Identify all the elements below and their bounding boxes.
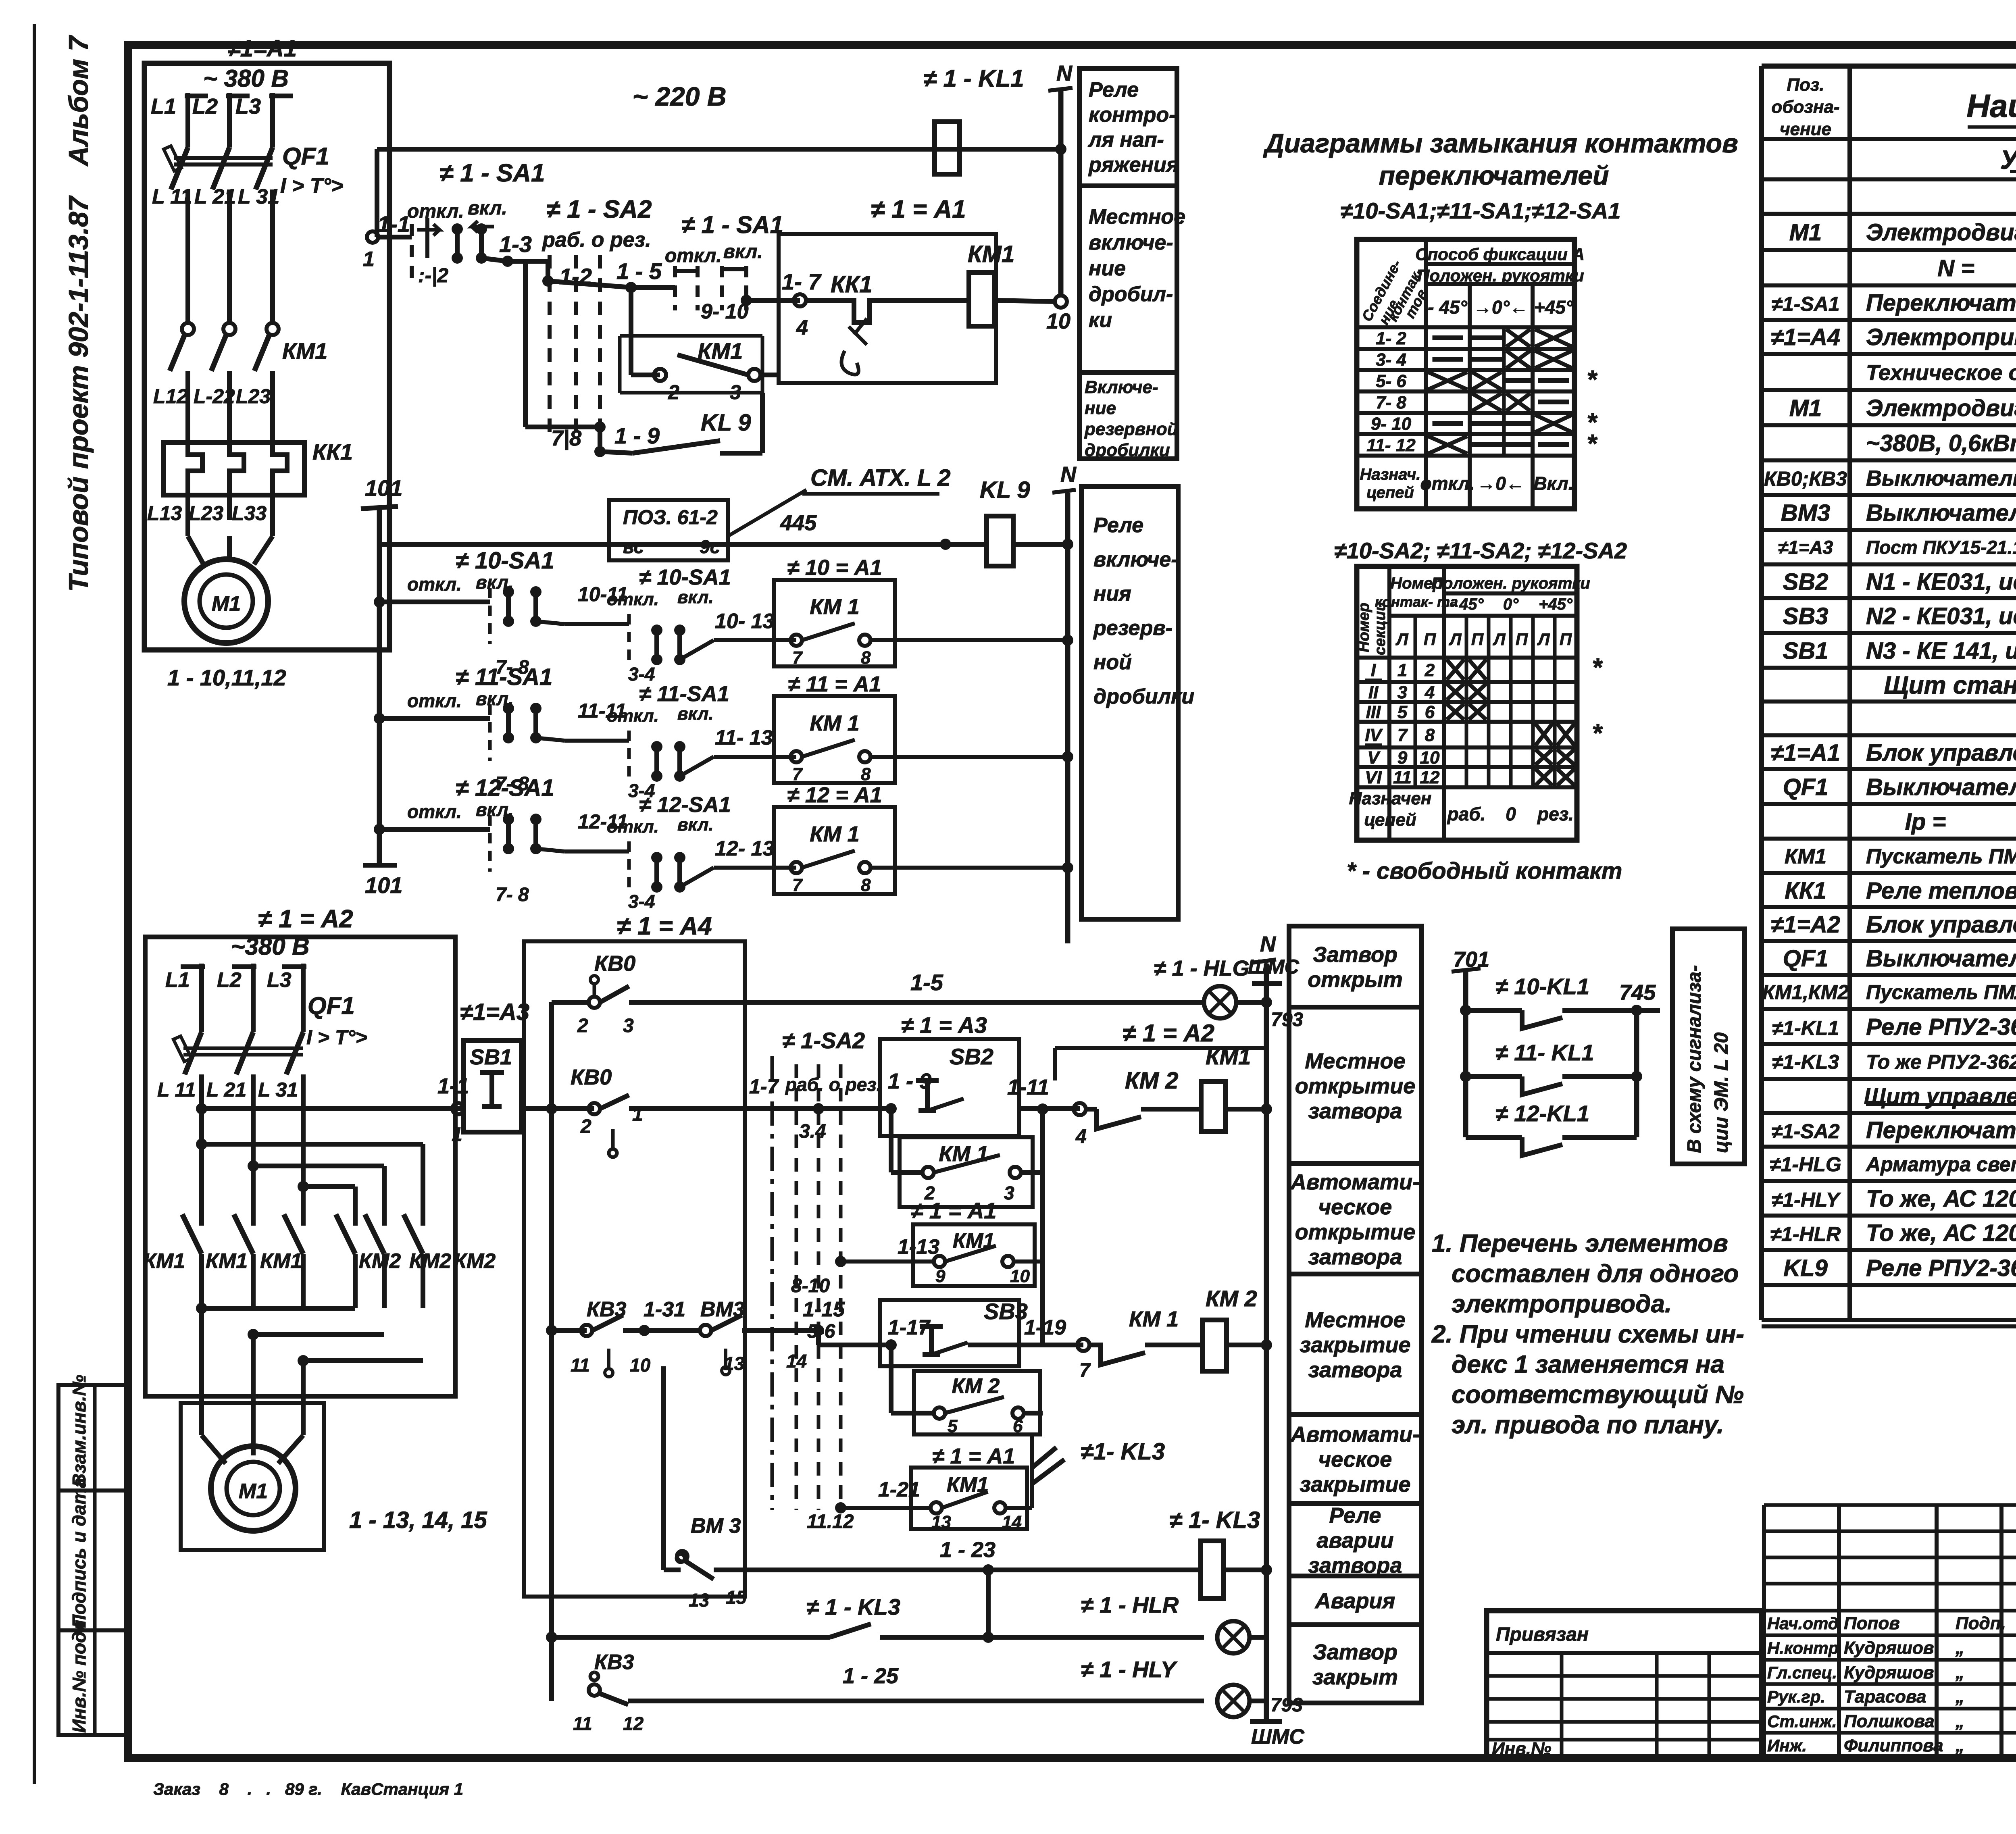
svg-text:1. Перечень элементов: 1. Перечень элементов (1432, 1230, 1728, 1257)
svg-text:*: * (1592, 718, 1603, 747)
svg-text:Электродвигатель: Электродвигатель (1866, 219, 2016, 246)
svg-text:≠ 11- KL1: ≠ 11- KL1 (1495, 1040, 1594, 1065)
svg-text:цепей: цепей (1366, 484, 1414, 502)
svg-text:Авария: Авария (1314, 1589, 1395, 1613)
svg-text:3: 3 (1397, 683, 1407, 702)
svg-text:Л: Л (1395, 630, 1409, 649)
svg-text:Арматура светосигнальная АС120: Арматура светосигнальная АС12013У2 (1865, 1153, 2016, 1176)
svg-text:1-19: 1-19 (1024, 1316, 1066, 1339)
svg-text:обозна-: обозна- (1771, 97, 1839, 117)
svg-text:5: 5 (1397, 702, 1408, 722)
svg-text:Положен. рукоятки: Положен. рукоятки (1417, 266, 1584, 285)
svg-text:включе-: включе- (1089, 231, 1173, 254)
svg-text:Пускатель ПМЛ-150104В, ~220В: Пускатель ПМЛ-150104В, ~220В (1866, 981, 2016, 1003)
svg-text:Тарасова: Тарасова (1844, 1687, 1926, 1707)
svg-text:Реле: Реле (1329, 1503, 1381, 1528)
svg-text:11: 11 (573, 1713, 592, 1734)
svg-text:VI: VI (1365, 768, 1382, 787)
svg-text:≠ 12 = А1: ≠ 12 = А1 (787, 783, 882, 807)
svg-text:101: 101 (365, 475, 402, 501)
svg-text:N2 - КЕ031, исп.4, т „ закрыт: N2 - КЕ031, исп.4, т „ закрыт “ (1866, 603, 2016, 629)
svg-text:Включе-: Включе- (1085, 377, 1158, 397)
svg-text:≠1-KL1: ≠1-KL1 (1772, 1017, 1839, 1039)
svg-text:рез.: рез. (1537, 804, 1574, 824)
svg-text:L 21: L 21 (194, 185, 236, 208)
svg-text:Положен. рукоятки: Положен. рукоятки (1431, 575, 1590, 592)
svg-text:Нач.отд: Нач.отд (1767, 1614, 1839, 1633)
svg-text:1-11: 1-11 (1007, 1075, 1049, 1099)
svg-text:КМ 2: КМ 2 (1125, 1068, 1178, 1094)
svg-text:≠ 10-SA1: ≠ 10-SA1 (456, 547, 554, 574)
svg-text:ВМ3: ВМ3 (1781, 500, 1830, 526)
svg-text:Реле: Реле (1093, 514, 1143, 537)
svg-text:1-13: 1-13 (898, 1235, 939, 1259)
svg-text:≠ 10 = А1: ≠ 10 = А1 (787, 556, 882, 580)
svg-text:КК1: КК1 (1785, 878, 1826, 904)
svg-text:КМ 1: КМ 1 (810, 822, 859, 846)
svg-text:L2: L2 (217, 968, 242, 992)
svg-text:1 - 23: 1 - 23 (940, 1538, 996, 1562)
svg-text:КМ2: КМ2 (454, 1249, 496, 1273)
svg-text:Местное: Местное (1305, 1308, 1405, 1332)
svg-text:10: 10 (630, 1355, 651, 1376)
svg-text:КМ1: КМ1 (1785, 845, 1826, 868)
svg-text:Выключатель конечный: Выключатель конечный (1866, 466, 2016, 490)
svg-text:L3: L3 (235, 94, 261, 119)
svg-text:Кудряшов: Кудряшов (1844, 1638, 1934, 1658)
svg-text:12: 12 (1420, 768, 1440, 787)
svg-text:SB3: SB3 (984, 1299, 1028, 1324)
svg-text:То же, АС 12014 У2: То же, АС 12014 У2 (1866, 1186, 2016, 1212)
svg-text:дробилки: дробилки (1093, 685, 1194, 708)
svg-text:КМ1: КМ1 (206, 1249, 248, 1273)
svg-text:раб.: раб. (1447, 804, 1486, 824)
svg-text:6: 6 (1013, 1416, 1023, 1436)
svg-text:Инж.: Инж. (1767, 1736, 1807, 1755)
svg-text:Способ фиксации А: Способ фиксации А (1415, 245, 1585, 264)
svg-text:Вкл.: Вкл. (1533, 473, 1573, 494)
svg-text:вкл.: вкл. (677, 815, 714, 835)
svg-text:V: V (1367, 748, 1381, 768)
svg-text:Выключатель АЕ2026-10НУ3-Б,Iр:: Выключатель АЕ2026-10НУ3-Б,Iр:10А (1866, 945, 2016, 972)
svg-text:Техническое описание электропр: Техническое описание электропривода (1866, 360, 2016, 385)
svg-text:открытие: открытие (1295, 1074, 1416, 1098)
svg-text:КМ2: КМ2 (359, 1249, 401, 1273)
svg-text:Ст.инж.: Ст.инж. (1767, 1712, 1837, 1731)
svg-text:цепей: цепей (1364, 810, 1416, 830)
svg-text:L23: L23 (189, 502, 223, 525)
svg-text:≠ 11 = А1: ≠ 11 = А1 (788, 672, 881, 696)
svg-text:1- 2: 1- 2 (1376, 329, 1406, 348)
svg-text:Подпись и дата: Подпись и дата (69, 1478, 90, 1628)
svg-text:Пост ПКУ15-21.131-54У2 с сальн: Пост ПКУ15-21.131-54У2 с сальником ф19мм (1866, 537, 2016, 558)
svg-text:3: 3 (623, 1015, 634, 1037)
svg-text:1-5: 1-5 (910, 970, 943, 995)
svg-text:резервной: резервной (1084, 419, 1178, 439)
svg-text:откл.: откл. (665, 245, 722, 266)
svg-text:1 - 25: 1 - 25 (843, 1664, 899, 1688)
svg-text:L12: L12 (153, 385, 188, 408)
svg-text:включе-: включе- (1093, 548, 1178, 571)
svg-text:открыт: открыт (1308, 968, 1403, 992)
svg-text:≠ 1 = А1: ≠ 1 = А1 (871, 196, 966, 223)
svg-text:ШМС: ШМС (1251, 1725, 1305, 1749)
svg-text:П: П (1516, 630, 1528, 649)
svg-text:≠1- KL3: ≠1- KL3 (1081, 1438, 1165, 1465)
svg-text:5-6: 5-6 (807, 1321, 835, 1342)
svg-text:≠ 1 = А2: ≠ 1 = А2 (1123, 1020, 1214, 1047)
svg-text:КМ2: КМ2 (409, 1249, 451, 1273)
svg-text:Электропривод 87Б015: Электропривод 87Б015 (1866, 324, 2016, 350)
svg-text:„: „ (1955, 1638, 1964, 1658)
svg-text:≠ 1 - HLR: ≠ 1 - HLR (1081, 1592, 1179, 1618)
svg-text:11: 11 (571, 1355, 590, 1376)
svg-text:SB2: SB2 (950, 1044, 993, 1069)
svg-text:I > T°>: I > T°> (306, 1026, 367, 1049)
svg-text:Выключатель АЕ20: Выключатель АЕ20 (1866, 774, 2016, 800)
svg-text:9- 10: 9- 10 (701, 300, 749, 323)
svg-text:SB1: SB1 (470, 1045, 512, 1069)
svg-text:12: 12 (623, 1713, 644, 1734)
svg-text:101: 101 (365, 872, 402, 898)
svg-text:М1: М1 (1789, 395, 1822, 421)
svg-text:П: П (1560, 630, 1572, 649)
svg-text:секции: секции (1372, 602, 1389, 656)
svg-text:ля нап-: ля нап- (1087, 128, 1164, 152)
svg-text:*: * (1587, 429, 1598, 458)
svg-text:П: П (1471, 630, 1484, 649)
svg-text:L23: L23 (236, 385, 271, 408)
svg-text:7: 7 (792, 764, 803, 784)
svg-text:Привязан: Привязан (1496, 1624, 1589, 1645)
svg-text:≠ 10-KL1: ≠ 10-KL1 (1495, 974, 1589, 999)
svg-text:КМ1: КМ1 (282, 338, 327, 364)
svg-text:ции ЭМ. L 20: ции ЭМ. L 20 (1711, 1032, 1732, 1153)
svg-text:13: 13 (689, 1590, 710, 1611)
svg-text:3: 3 (1004, 1182, 1014, 1203)
svg-text:4: 4 (1425, 683, 1435, 702)
svg-text:1 - 13, 14, 15: 1 - 13, 14, 15 (349, 1507, 487, 1533)
svg-text:≠10-SA1;≠11-SA1;≠12-SA1: ≠10-SA1;≠11-SA1;≠12-SA1 (1341, 198, 1621, 223)
svg-text:ние: ние (1089, 257, 1126, 280)
svg-text::-|2: :-|2 (418, 264, 448, 287)
svg-text:ВМ 3: ВМ 3 (691, 1514, 741, 1538)
svg-text:Местное: Местное (1305, 1049, 1405, 1073)
svg-text:8: 8 (861, 764, 871, 784)
svg-text:затвора: затвора (1308, 1099, 1402, 1123)
svg-text:КМ 2: КМ 2 (952, 1374, 1000, 1398)
svg-text:1-21: 1-21 (878, 1478, 920, 1501)
svg-text:декс 1 заменяется на: декс 1 заменяется на (1452, 1351, 1724, 1378)
svg-text:соответствующий №: соответствующий № (1452, 1381, 1744, 1409)
svg-text:КМ1,КМ2: КМ1,КМ2 (1762, 981, 1849, 1003)
svg-text:L 11: L 11 (157, 1078, 196, 1101)
svg-text:13: 13 (931, 1512, 951, 1532)
svg-text:Инв.№ подл.: Инв.№ подл. (69, 1615, 90, 1733)
svg-text:Гл.спец.: Гл.спец. (1767, 1663, 1837, 1682)
svg-text:8: 8 (1425, 725, 1435, 745)
svg-text:1-3: 1-3 (499, 231, 532, 257)
svg-text:QF1: QF1 (1783, 945, 1829, 972)
svg-text:≠1-SA2: ≠1-SA2 (1771, 1120, 1839, 1143)
svg-text:L 31: L 31 (258, 1078, 298, 1101)
svg-text:Назначен: Назначен (1349, 789, 1432, 808)
svg-text:L2: L2 (192, 94, 218, 119)
svg-text:≠ 1 = А1: ≠ 1 = А1 (932, 1444, 1015, 1468)
svg-text:L 21: L 21 (206, 1078, 246, 1101)
svg-text:7|8: 7|8 (551, 426, 581, 450)
svg-text:3-4: 3-4 (628, 891, 655, 912)
svg-text:L1: L1 (151, 94, 176, 119)
svg-text:эл. привода по плану.: эл. привода по плану. (1452, 1411, 1724, 1439)
svg-text:≠ 1 - SA1: ≠ 1 - SA1 (681, 211, 783, 238)
svg-text:I: I (1371, 660, 1376, 680)
svg-text:откл.: откл. (1420, 473, 1475, 494)
svg-text:Л: Л (1449, 630, 1462, 649)
svg-text:откл.: откл. (407, 201, 464, 222)
svg-text:10: 10 (1420, 748, 1440, 768)
svg-text:КМ1: КМ1 (260, 1249, 302, 1273)
svg-text:L-22: L-22 (194, 385, 235, 408)
svg-text:Реле РПУ2-36020У3Б, 2р конт.~2: Реле РПУ2-36020У3Б, 2р конт.~220В (1866, 1014, 2016, 1040)
svg-text:≠1-HLY: ≠1-HLY (1772, 1189, 1841, 1211)
svg-text:откл.: откл. (407, 690, 462, 711)
svg-text:≠1=А2: ≠1=А2 (1771, 912, 1840, 938)
svg-text:KL 9: KL 9 (980, 477, 1030, 503)
svg-text:10: 10 (1010, 1266, 1030, 1286)
svg-text:6: 6 (1425, 702, 1435, 722)
svg-text:вкл.: вкл. (723, 241, 763, 262)
svg-text:Реле РПУ2-36400У3Б 2з.конт.~2: Реле РПУ2-36400У3Б 2з.конт.~220В (1866, 1255, 2016, 1281)
svg-text:IV: IV (1365, 725, 1383, 745)
svg-text:ческое: ческое (1318, 1447, 1392, 1472)
svg-text:≠ 1 - HLG: ≠ 1 - HLG (1154, 956, 1250, 980)
svg-text:закрытие: закрытие (1300, 1333, 1410, 1357)
svg-text:Реле: Реле (1089, 78, 1139, 102)
svg-text:1-7: 1-7 (749, 1075, 779, 1098)
svg-text:7: 7 (792, 648, 803, 668)
svg-text:≠ 1 - SA1: ≠ 1 - SA1 (439, 159, 545, 187)
svg-text:ки: ки (1089, 308, 1112, 332)
svg-text:Блок управления Б5437-3074ГУХЛ: Блок управления Б5437-3074ГУХЛ4 (1866, 912, 2016, 938)
svg-text:затвора: затвора (1308, 1245, 1402, 1269)
svg-text:1: 1 (452, 1124, 462, 1145)
svg-text:* - свободный контакт: * - свободный контакт (1347, 858, 1622, 884)
svg-text:1: 1 (1397, 660, 1407, 680)
svg-text:12- 13: 12- 13 (715, 837, 775, 860)
svg-text:Затвор: Затвор (1313, 1640, 1397, 1664)
svg-text:4: 4 (1075, 1126, 1087, 1147)
svg-text:КВ0;КВ3: КВ0;КВ3 (1764, 467, 1847, 490)
svg-text:Местное: Местное (1089, 205, 1185, 229)
svg-text:2: 2 (577, 1015, 588, 1037)
svg-text:откл.: откл. (607, 589, 659, 609)
svg-text:≠1-KL3: ≠1-KL3 (1772, 1051, 1839, 1073)
svg-text:7- 8: 7- 8 (1376, 393, 1406, 412)
svg-text:L13: L13 (147, 502, 182, 525)
svg-text:≠1=А1: ≠1=А1 (227, 35, 297, 62)
svg-text:дробилки: дробилки (1085, 440, 1170, 460)
svg-text:I > T°>: I > T°> (280, 174, 344, 198)
svg-text:~ 380 В: ~ 380 В (203, 65, 289, 92)
svg-text:КМ1: КМ1 (698, 338, 743, 364)
svg-text:М1: М1 (1789, 219, 1822, 246)
svg-text:Затвор: Затвор (1313, 943, 1397, 967)
svg-text:745: 745 (1619, 980, 1656, 1005)
svg-text:резерв-: резерв- (1093, 616, 1173, 640)
svg-text:Выключатель муфты: Выключатель муфты (1866, 500, 2016, 526)
svg-text:КВ0: КВ0 (594, 951, 635, 976)
svg-text:9: 9 (1397, 748, 1408, 768)
svg-text:Автомати-: Автомати- (1290, 1422, 1420, 1447)
svg-text:N1 - КЕ031, исп.4, т „ открыт: N1 - КЕ031, исп.4, т „ открыт “ (1866, 569, 2016, 595)
svg-text:15: 15 (726, 1587, 747, 1608)
svg-text:N: N (1056, 61, 1073, 85)
svg-text:Реле тепловое РТЛ-10: Реле тепловое РТЛ-10 (1866, 878, 2016, 904)
svg-text:КМ1: КМ1 (968, 241, 1014, 267)
svg-text:*: * (1592, 653, 1603, 682)
svg-text:11: 11 (1393, 768, 1412, 787)
svg-text:откл.: откл. (407, 574, 462, 595)
svg-text:≠ 11-SA1: ≠ 11-SA1 (639, 682, 729, 706)
svg-text:КК1: КК1 (831, 271, 873, 298)
svg-text:QF1: QF1 (308, 992, 355, 1019)
svg-text:Номер: Номер (1356, 603, 1372, 652)
svg-text:≠ 12-SA1: ≠ 12-SA1 (456, 775, 554, 801)
svg-text:дробил-: дробил- (1089, 283, 1173, 306)
svg-text:2. При чтении схемы ин-: 2. При чтении схемы ин- (1431, 1320, 1744, 1348)
svg-text:Кудряшов: Кудряшов (1844, 1663, 1934, 1682)
svg-text:3.4: 3.4 (799, 1121, 826, 1142)
svg-text:0°: 0° (1503, 595, 1519, 613)
svg-text:≠ 1 - KL1: ≠ 1 - KL1 (923, 65, 1024, 92)
svg-text:→0←: →0← (1477, 473, 1524, 494)
svg-text:КВ3: КВ3 (594, 1651, 634, 1674)
svg-text:раб. о рез.: раб. о рез. (541, 228, 651, 252)
svg-text:Наименование: Наименование (1966, 88, 2016, 124)
svg-text:≠ 10-SA1: ≠ 10-SA1 (639, 565, 731, 589)
svg-text:L33: L33 (232, 502, 267, 525)
svg-text:5: 5 (948, 1416, 958, 1436)
svg-text:ПОЗ. 61-2: ПОЗ. 61-2 (623, 506, 718, 529)
svg-text:11.12: 11.12 (807, 1511, 854, 1532)
svg-text:В схему сигнализа-: В схему сигнализа- (1684, 965, 1705, 1153)
svg-text:8-10: 8-10 (791, 1275, 830, 1297)
svg-text:11- 12: 11- 12 (1366, 435, 1416, 455)
svg-text:4: 4 (796, 316, 808, 339)
svg-text:закрытие: закрытие (1300, 1472, 1410, 1497)
svg-text:9с: 9с (700, 536, 720, 557)
svg-text:≠1-HLR: ≠1-HLR (1770, 1223, 1841, 1245)
svg-text:N: N (1260, 932, 1276, 956)
svg-text:Взам.инв.№: Взам.инв.№ (69, 1374, 90, 1487)
svg-text:1 - 10,11,12: 1 - 10,11,12 (167, 665, 286, 690)
svg-text:≠1=А1: ≠1=А1 (1771, 740, 1840, 766)
svg-text:Назнач.: Назнач. (1360, 466, 1421, 483)
svg-text:раб. о рез.: раб. о рез. (785, 1074, 882, 1095)
svg-text:L 31: L 31 (238, 185, 279, 208)
svg-text:затвора: затвора (1308, 1358, 1402, 1382)
svg-text:≠ 1 = А2: ≠ 1 = А2 (258, 905, 353, 933)
svg-text:электропривода.: электропривода. (1452, 1290, 1672, 1318)
svg-text:Л: Л (1493, 630, 1506, 649)
svg-text:III: III (1366, 702, 1381, 722)
svg-text:KL9: KL9 (1783, 1255, 1828, 1281)
svg-text:1-17: 1-17 (888, 1316, 931, 1339)
svg-text:7: 7 (792, 875, 803, 895)
svg-text:КК1: КК1 (312, 439, 353, 464)
svg-text:аварии: аварии (1317, 1528, 1394, 1553)
svg-text:Поз.: Поз. (1787, 75, 1824, 95)
svg-text:Рук.гр.: Рук.гр. (1767, 1687, 1825, 1706)
svg-text:Автомати-: Автомати- (1290, 1170, 1420, 1194)
svg-text:≠ 1 - KL3: ≠ 1 - KL3 (806, 1594, 900, 1620)
svg-text:≠ 1- KL3: ≠ 1- KL3 (1169, 1507, 1260, 1533)
svg-text:5- 6: 5- 6 (1376, 371, 1406, 391)
svg-text:1-15: 1-15 (803, 1298, 845, 1321)
svg-text:≠ 1 - SA2: ≠ 1 - SA2 (546, 196, 652, 223)
svg-text:≠1=А3: ≠1=А3 (1778, 537, 1833, 558)
svg-text:контро-: контро- (1089, 103, 1176, 127)
svg-text:1- 7: 1- 7 (782, 269, 822, 294)
svg-text:~380В, 0,6кВт: ~380В, 0,6кВт (1866, 430, 2016, 456)
svg-text:Пускатель ПМЛ110004В с ПКЛ220: Пускатель ПМЛ110004В с ПКЛ2204~220В (1866, 845, 2016, 868)
svg-text:переключателей: переключателей (1379, 160, 1609, 190)
svg-text:Типовой проект 902-1-113.87: Типовой проект 902-1-113.87 Альбом 7 (63, 35, 94, 592)
svg-text:14: 14 (1002, 1512, 1022, 1532)
svg-text:8: 8 (861, 648, 871, 668)
svg-text:SB1: SB1 (1783, 638, 1829, 664)
svg-text:1 - 5: 1 - 5 (616, 258, 662, 284)
svg-text:ческое: ческое (1318, 1195, 1392, 1219)
svg-text:→0°←: →0°← (1473, 297, 1528, 318)
svg-text:откл.: откл. (407, 801, 462, 822)
svg-text:вкл.: вкл. (677, 704, 714, 724)
svg-text:То же РПУ2-36220У3Б,2з,2р кон: То же РПУ2-36220У3Б,2з,2р конт,~220В (1866, 1051, 2016, 1073)
svg-text:≠ 1 - HLY: ≠ 1 - HLY (1081, 1657, 1178, 1682)
svg-text:откл.: откл. (607, 706, 659, 726)
svg-text:Электродвигатель 4АХС 71А4У3;: Электродвигатель 4АХС 71А4У3; (1866, 395, 2016, 421)
svg-text:КВ0: КВ0 (571, 1065, 612, 1089)
svg-text:10: 10 (1046, 309, 1070, 333)
svg-text:L1: L1 (165, 968, 190, 992)
svg-text:Заказ 8 . . 89 г.: Заказ 8 . . 89 г. КавСтанция 1 (153, 1780, 463, 1799)
svg-text:+45°: +45° (1534, 297, 1573, 318)
svg-text:QF1: QF1 (1783, 774, 1829, 800)
svg-text:1-1: 1-1 (377, 211, 410, 237)
svg-text:9: 9 (935, 1266, 946, 1286)
svg-text:Л: Л (1537, 630, 1550, 649)
svg-text:„: „ (1955, 1736, 1964, 1755)
svg-text:„: „ (1955, 1663, 1964, 1682)
svg-text:SB3: SB3 (1783, 603, 1829, 629)
svg-text:закрыт: закрыт (1312, 1665, 1398, 1689)
svg-text:10- 13: 10- 13 (715, 610, 775, 633)
svg-text:вкл.: вкл. (677, 587, 714, 607)
svg-text:*: * (1587, 365, 1598, 394)
svg-text:8: 8 (861, 875, 871, 895)
svg-text:вс: вс (623, 536, 644, 557)
svg-text:≠1=А3: ≠1=А3 (460, 999, 529, 1025)
svg-text:откл.: откл. (607, 817, 659, 837)
svg-text:≠ 1-SA2: ≠ 1-SA2 (782, 1028, 865, 1053)
svg-text:КМ 1: КМ 1 (810, 595, 859, 619)
svg-text:N3 - КЕ 141, исп.5, к и стоп: N3 - КЕ 141, исп.5, к и стоп “ (1866, 638, 2016, 664)
svg-text:≠ 1 = А1: ≠ 1 = А1 (911, 1198, 997, 1223)
svg-text:~ 220 В: ~ 220 В (633, 81, 727, 111)
svg-text:составлен для одного: составлен для одного (1452, 1260, 1739, 1288)
svg-text:СМ. АТХ. L 2: СМ. АТХ. L 2 (810, 465, 951, 491)
